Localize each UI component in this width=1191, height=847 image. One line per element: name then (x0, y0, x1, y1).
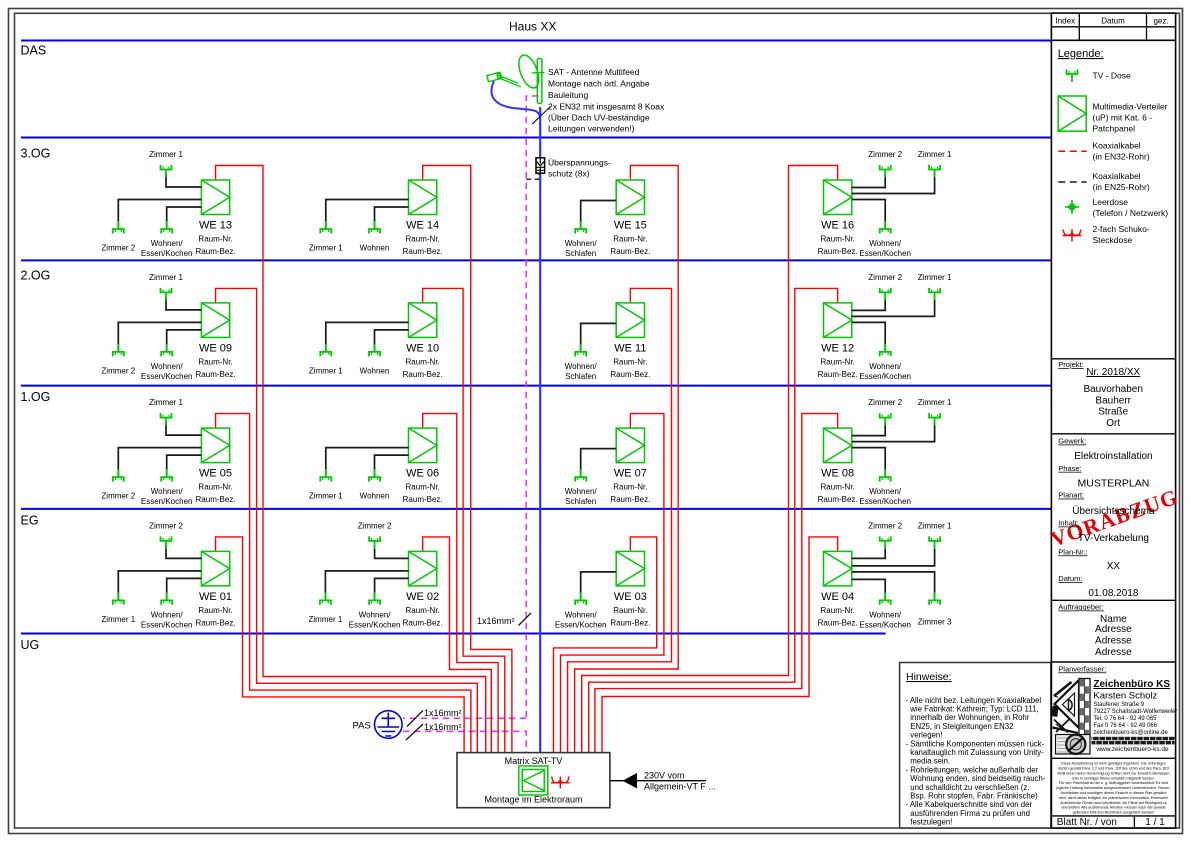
svg-text:Raum-Nr.: Raum-Nr. (198, 606, 232, 615)
multimedia distributor WE 05 (201, 428, 229, 463)
svg-text:(in EN25-Rohr): (in EN25-Rohr) (1093, 182, 1150, 192)
svg-text:Zimmer 1: Zimmer 1 (918, 150, 952, 159)
cable size slash riser (519, 613, 532, 626)
red coax cable WE 04 to Matrix (602, 537, 838, 753)
wire WE 08 outlet Wohnen/Essen/Kochen (852, 448, 885, 478)
svg-text:MUSTERPLAN: MUSTERPLAN (1078, 477, 1150, 489)
svg-text:Essen/Kochen: Essen/Kochen (141, 620, 193, 629)
svg-text:Blatt Nr. / von: Blatt Nr. / von (1057, 817, 1117, 828)
svg-text:- Sämtliche Komponenten müssen: - Sämtliche Komponenten müssen rück- (906, 739, 1045, 748)
TV outlet WE 08 Wohnen/Essen/Kochen (880, 469, 891, 482)
svg-text:Essen/Kochen: Essen/Kochen (141, 372, 193, 381)
svg-text:2-fach Schuko-: 2-fach Schuko- (1093, 224, 1150, 234)
svg-text:Ort: Ort (1106, 418, 1120, 429)
TV outlet WE 14 Wohnen (369, 221, 380, 234)
svg-text:kanaltauglich mit Zulassung vo: kanaltauglich mit Zulassung von Unity- (910, 748, 1044, 757)
svg-text:Wohnen/: Wohnen/ (151, 610, 184, 619)
TV outlet WE 10 Wohnen (369, 344, 380, 357)
multimedia distributor WE 03 (616, 551, 644, 586)
230V supply arrow (610, 780, 706, 782)
svg-text:79227 Schallstadt-Wolfenweiler: 79227 Schallstadt-Wolfenweiler (1093, 709, 1177, 715)
svg-text:WE 11: WE 11 (614, 342, 646, 354)
svg-text:Raum-Bez.: Raum-Bez. (196, 370, 236, 379)
TV outlet WE 01 Wohnen/Essen/Kochen (161, 592, 172, 605)
svg-text:Zimmer 1: Zimmer 1 (101, 615, 135, 624)
legend TV outlet symbol (1067, 70, 1078, 83)
svg-text:(in EN32-Rohr): (in EN32-Rohr) (1093, 152, 1150, 162)
wire WE 13 outlet near (167, 207, 202, 229)
svg-text:Wohnen/: Wohnen/ (565, 362, 598, 371)
svg-text:Wohnen: Wohnen (360, 244, 390, 253)
svg-text:wie Fabrikat: Kathrein; Typ: L: wie Fabrikat: Kathrein; Typ: LCD 111, (909, 705, 1038, 714)
red coax cable WE 02 to Matrix (423, 537, 492, 753)
wire WE 02 outlet Wohnen/Essen/Kochen (375, 578, 409, 600)
TV outlet WE 02 Wohnen/Essen/Kochen (369, 592, 380, 605)
svg-text:Koaxialkabel: Koaxialkabel (1093, 171, 1141, 181)
svg-text:Adresse: Adresse (1095, 636, 1132, 647)
svg-text:Haus XX: Haus XX (509, 20, 556, 34)
svg-text:Raum-Nr.: Raum-Nr. (613, 483, 647, 492)
svg-text:Wohnen/: Wohnen/ (565, 239, 598, 248)
svg-text:und schalldicht zu verschließe: und schalldicht zu verschließen (z. (910, 783, 1029, 792)
Matrix distributor symbol (519, 766, 548, 795)
TV outlet WE 08 Zimmer 2 (880, 413, 891, 426)
TV outlet WE 04 Zimmer 3 (929, 592, 940, 605)
svg-text:Raum-Nr.: Raum-Nr. (821, 606, 855, 615)
red coax cable WE 12 to Matrix (589, 288, 838, 752)
svg-text:Planverfasser:: Planverfasser: (1058, 664, 1106, 673)
TV outlet WE 04 Zimmer 1 (929, 536, 940, 549)
svg-text:Raum-Nr.: Raum-Nr. (613, 357, 647, 366)
svg-text:Zimmer 2: Zimmer 2 (149, 521, 183, 530)
svg-text:UG: UG (21, 638, 40, 652)
cable size slash lower (406, 724, 423, 740)
svg-text:jegliche Haftung meinerseits a: jegliche Haftung meinerseits ausgeschlos… (1056, 786, 1171, 790)
svg-text:1 / 1: 1 / 1 (1145, 817, 1165, 828)
TV outlet WE 02 Zimmer 2 (369, 536, 380, 549)
svg-text:Zimmer 2: Zimmer 2 (101, 492, 135, 501)
svg-text:Tel. 0 76 64 - 92 49 065: Tel. 0 76 64 - 92 49 065 (1093, 716, 1157, 722)
wire WE 13 outlet far (118, 200, 201, 230)
svg-text:Koaxialkabel: Koaxialkabel (1093, 141, 1141, 151)
wire WE 12 outlet Zimmer 2 (852, 297, 885, 311)
svg-text:Raum-Bez.: Raum-Bez. (818, 618, 858, 627)
svg-text:Essen/Kochen: Essen/Kochen (859, 497, 911, 506)
blue coax riser from SAT antenna to Matrix (539, 107, 541, 753)
svg-text:WE 03: WE 03 (614, 591, 647, 603)
TV outlet WE 06 Wohnen (369, 469, 380, 482)
svg-text:- Rohrleitungen, welche außerh: - Rohrleitungen, welche außerhalb der (906, 765, 1039, 774)
TV outlet WE 13 Wohnen/Essen/Kochen (161, 221, 172, 234)
svg-text:WE 04: WE 04 (821, 591, 854, 603)
TV outlet WE 04 Zimmer 2 (880, 536, 891, 549)
svg-text:Raum-Bez.: Raum-Bez. (818, 495, 858, 504)
brick banner (1092, 737, 1175, 745)
svg-text:Raum-Nr.: Raum-Nr. (198, 235, 232, 244)
SAT antenna LNB (487, 72, 502, 82)
svg-text:Phase:: Phase: (1058, 464, 1081, 473)
svg-text:Wohnen/: Wohnen/ (869, 487, 902, 496)
wire WE 05 outlet far (118, 448, 201, 478)
SAT antenna feed arm (498, 73, 538, 87)
svg-text:Raum-Bez.: Raum-Bez. (818, 370, 858, 379)
svg-text:schutz (8x): schutz (8x) (548, 169, 590, 179)
wire WE 08 outlet Zimmer 2 (852, 422, 885, 436)
svg-text:zeichenbuero-ks@online.de: zeichenbuero-ks@online.de (1093, 730, 1168, 736)
svg-text:Zimmer 1: Zimmer 1 (149, 150, 183, 159)
legend multimedia distributor (1058, 96, 1086, 131)
TV outlet WE 14 Zimmer 1 (320, 221, 331, 234)
TV outlet WE 16 Wohnen/Essen/Kochen (880, 221, 891, 234)
svg-text:WE 02: WE 02 (406, 591, 439, 603)
svg-text:Wohnen/: Wohnen/ (565, 487, 598, 496)
red coax cable WE 10 to Matrix (423, 288, 505, 752)
svg-text:1x16mm²: 1x16mm² (424, 708, 462, 718)
floor line 3.OG (21, 137, 1051, 139)
svg-text:Wohnen: Wohnen (360, 492, 390, 501)
floor line 2.OG (21, 259, 1051, 261)
red coax cable WE 09 to Matrix (216, 288, 478, 752)
TV outlet WE 13 Zimmer 1 (161, 165, 172, 178)
multimedia distributor WE 13 (201, 180, 229, 215)
multimedia distributor WE 06 (409, 428, 437, 463)
svg-text:BGB ohne meine Genehmigung Dri: BGB ohne meine Genehmigung Dritten nicht… (1057, 771, 1169, 775)
svg-text:Leerdose: Leerdose (1093, 197, 1129, 207)
svg-text:Raum-Nr.: Raum-Nr. (198, 357, 232, 366)
wire WE 16 outlet Zimmer 2 (852, 174, 885, 188)
wire WE 05 outlet near (167, 455, 202, 477)
svg-text:überprüfen! Alle ausführende A: überprüfen! Alle ausführende Arbeiten mü… (1061, 806, 1165, 810)
legend black coax cable sample (1058, 181, 1086, 183)
svg-text:Elektroinstallation: Elektroinstallation (1074, 451, 1152, 462)
wire WE 16 outlet Zimmer 1 (852, 174, 935, 194)
svg-text:Für den Planinhalt ist der o.: Für den Planinhalt ist der o. g. Auftrag… (1059, 781, 1168, 785)
svg-text:WE 12: WE 12 (821, 342, 854, 354)
svg-text:Essen/Kochen: Essen/Kochen (859, 372, 911, 381)
svg-text:Zimmer 2: Zimmer 2 (101, 244, 135, 253)
svg-text:Wohnen/: Wohnen/ (151, 487, 184, 496)
svg-text:Inhalt:: Inhalt: (1058, 519, 1078, 528)
Hinweise notes box (900, 663, 1051, 829)
svg-text:1.OG: 1.OG (21, 390, 51, 404)
TV outlet WE 07 Wohnen/Schlafen (575, 469, 586, 482)
svg-text:Auftraggeber:: Auftraggeber: (1058, 603, 1103, 612)
legend Schuko socket symbol (1063, 229, 1082, 242)
svg-text:Straße: Straße (1098, 407, 1128, 418)
svg-text:Zimmer 2: Zimmer 2 (868, 273, 902, 282)
svg-text:Montage im Elektroraum: Montage im Elektroraum (484, 795, 582, 805)
svg-text:Raum-Nr.: Raum-Nr. (613, 235, 647, 244)
svg-text:Raum-Nr.: Raum-Nr. (406, 483, 440, 492)
wire WE 16 outlet Wohnen/Essen/Kochen (852, 200, 885, 230)
PAS earth terminal (375, 711, 403, 739)
svg-text:Steckdose: Steckdose (1093, 235, 1133, 245)
svg-text:Bauvorhaben: Bauvorhaben (1083, 384, 1143, 395)
Matrix SAT-TV cabinet (457, 753, 610, 808)
svg-text:Raum-Nr.: Raum-Nr. (821, 357, 855, 366)
wire WE 15 outlet (581, 201, 617, 230)
svg-text:1x16mm²: 1x16mm² (424, 722, 462, 732)
svg-text:Essen/Kochen: Essen/Kochen (859, 620, 911, 629)
multimedia distributor WE 01 (201, 551, 229, 586)
svg-text:Zimmer 1: Zimmer 1 (309, 244, 343, 253)
multimedia distributor WE 11 (616, 303, 644, 338)
svg-text:Zimmer 3: Zimmer 3 (918, 617, 952, 626)
svg-text:Essen/Kochen: Essen/Kochen (349, 620, 401, 629)
svg-text:Diese Ausarbeitung ist mein ge: Diese Ausarbeitung ist mein geistiges Ei… (1061, 762, 1166, 766)
svg-text:230V vom: 230V vom (644, 770, 685, 780)
wire WE 01 outlet near (167, 578, 202, 600)
svg-text:TV-Verkabelung: TV-Verkabelung (1078, 533, 1149, 544)
svg-text:SAT - Antenne Multifeed: SAT - Antenne Multifeed (548, 67, 640, 77)
svg-text:Raum-Nr.: Raum-Nr. (613, 606, 647, 615)
wire WE 06 outlet Wohnen (375, 455, 409, 477)
TV outlet WE 13 Zimmer 2 (113, 221, 124, 234)
multimedia distributor WE 16 (824, 180, 852, 215)
floor line 1.OG (21, 385, 1051, 387)
red coax cable WE 06 to Matrix (423, 414, 498, 753)
svg-text:Montage nach örtl. Angabe: Montage nach örtl. Angabe (548, 79, 650, 89)
wire WE 04 outlet Zimmer 1 (852, 545, 935, 566)
svg-text:1x16mm²: 1x16mm² (477, 616, 515, 626)
svg-text:Raum-Bez.: Raum-Bez. (196, 247, 236, 256)
svg-text:oder in sonstiger Weise inhalt: oder in sonstiger Weise inhaltlich mitge… (1072, 776, 1156, 780)
svg-text:2.OG: 2.OG (21, 269, 51, 283)
svg-text:Raum-Nr.: Raum-Nr. (406, 357, 440, 366)
svg-text:PAS: PAS (353, 721, 371, 732)
svg-text:Zimmer 1: Zimmer 1 (309, 492, 343, 501)
svg-text:Gewerk:: Gewerk: (1058, 437, 1086, 446)
TV outlet WE 16 Zimmer 1 (929, 165, 940, 178)
red coax cable WE 01 to Matrix (216, 537, 465, 753)
svg-text:WE 14: WE 14 (406, 220, 439, 232)
multimedia distributor WE 10 (409, 303, 437, 338)
svg-text:Zimmer 2: Zimmer 2 (358, 521, 392, 530)
TV outlet WE 12 Wohnen/Essen/Kochen (880, 344, 891, 357)
svg-text:Wohnen/: Wohnen/ (869, 362, 902, 371)
wire WE 01 top outlet (166, 545, 201, 558)
wire WE 06 outlet Zimmer 1 (326, 448, 409, 478)
svg-text:Schlafen: Schlafen (565, 372, 596, 381)
revision table (1051, 26, 1175, 28)
svg-text:Wohnen: Wohnen (360, 366, 390, 375)
svg-text:Wohnen/: Wohnen/ (151, 362, 184, 371)
svg-text:WE 07: WE 07 (614, 468, 647, 480)
svg-text:DAS: DAS (21, 44, 47, 58)
svg-text:Raum-Bez.: Raum-Bez. (610, 247, 650, 256)
wire WE 08 outlet Zimmer 1 (852, 422, 935, 442)
svg-text:Raum-Bez.: Raum-Bez. (610, 495, 650, 504)
wire WE 02 outlet Zimmer 1 (325, 571, 408, 601)
TV outlet WE 05 Zimmer 2 (113, 469, 124, 482)
svg-text:WE 06: WE 06 (406, 468, 439, 480)
svg-text:Raum-Bez.: Raum-Bez. (196, 618, 236, 627)
svg-text:Matrix SAT-TV: Matrix SAT-TV (505, 756, 563, 766)
svg-text:innerhalb der Wohnungen, in Ro: innerhalb der Wohnungen, in Rohr (910, 713, 1029, 722)
multimedia distributor WE 02 (409, 551, 437, 586)
wire WE 04 outlet Zimmer 2 (852, 545, 885, 558)
svg-text:gez.: gez. (1153, 16, 1168, 25)
svg-text:Zimmer 2: Zimmer 2 (868, 150, 902, 159)
floor line DAS (21, 40, 1051, 42)
svg-text:festzulegen!: festzulegen! (910, 818, 952, 827)
svg-text:Wohnen/: Wohnen/ (565, 610, 598, 619)
svg-text:Raum-Bez.: Raum-Bez. (403, 495, 443, 504)
TV outlet WE 11 Wohnen/Schlafen (575, 344, 586, 357)
svg-text:WE 08: WE 08 (821, 468, 854, 480)
svg-text:media sein.: media sein. (910, 757, 950, 766)
svg-text:Schlafen: Schlafen (565, 249, 596, 258)
TV outlet WE 08 Zimmer 1 (929, 413, 940, 426)
red coax cable WE 03 to Matrix (554, 537, 657, 753)
wire WE 14 outlet Zimmer 1 (326, 200, 409, 230)
TV outlet WE 10 Zimmer 1 (320, 344, 331, 357)
svg-text:Planart:: Planart: (1058, 491, 1084, 500)
svg-text:Allgemein-VT F ...: Allgemein-VT F ... (644, 782, 716, 792)
svg-text:Datum: Datum (1101, 16, 1125, 25)
svg-text:Raum-Bez.: Raum-Bez. (403, 247, 443, 256)
wire WE 12 outlet Wohnen/Essen/Kochen (852, 322, 885, 352)
red coax cable WE 07 to Matrix (561, 414, 664, 753)
svg-text:Raum-Nr.: Raum-Nr. (406, 606, 440, 615)
svg-text:Patchpanel: Patchpanel (1093, 124, 1136, 134)
svg-text:EG: EG (21, 514, 39, 528)
svg-text:Zeichenbüro KS: Zeichenbüro KS (1093, 679, 1170, 690)
svg-text:(uP) mit Kat. 6 -: (uP) mit Kat. 6 - (1093, 113, 1153, 123)
wire WE 10 outlet Zimmer 1 (326, 322, 409, 352)
svg-text:Zimmer 1: Zimmer 1 (918, 398, 952, 407)
svg-text:Zimmer 1: Zimmer 1 (309, 615, 343, 624)
TV outlet WE 01 Zimmer 2 (161, 536, 172, 549)
svg-text:Raum-Nr.: Raum-Nr. (198, 483, 232, 492)
wire WE 09 outlet near (167, 330, 202, 352)
title block panel (1051, 13, 1175, 828)
svg-text:Leitungen verwenden!): Leitungen verwenden!) (548, 124, 635, 134)
svg-text:Fax 0 76 64 - 92 49 066: Fax 0 76 64 - 92 49 066 (1093, 723, 1157, 729)
svg-text:www.zeichenbuero-ks.de: www.zeichenbuero-ks.de (1095, 746, 1169, 753)
svg-text:Raum-Nr.: Raum-Nr. (406, 235, 440, 244)
svg-text:Essen/Kochen: Essen/Kochen (141, 497, 193, 506)
svg-text:Zimmer 2: Zimmer 2 (868, 398, 902, 407)
svg-text:Index: Index (1056, 16, 1076, 25)
svg-text:Projekt:: Projekt: (1058, 360, 1083, 369)
svg-text:Zimmer 1: Zimmer 1 (149, 273, 183, 282)
wire WE 14 outlet Wohnen (375, 207, 409, 229)
TV outlet WE 04 Wohnen/Essen/Kochen (880, 592, 891, 605)
wire WE 05 top outlet (166, 422, 201, 435)
SAT antenna mast (537, 59, 542, 104)
svg-text:Bsp. Rohr stopfen, Fabr. Fränk: Bsp. Rohr stopfen, Fabr. Fränkische) (910, 792, 1038, 801)
svg-text:Ausführende Firmen sind verpfl: Ausführende Firmen sind verpflichtet: di… (1060, 801, 1167, 805)
svg-text:Hinweise:: Hinweise: (906, 671, 952, 683)
svg-text:01.08.2018: 01.08.2018 (1088, 588, 1138, 599)
svg-text:Raum-Bez.: Raum-Bez. (818, 247, 858, 256)
multimedia distributor WE 07 (616, 428, 644, 463)
svg-text:EN25, in Steigleitungen EN32: EN25, in Steigleitungen EN32 (910, 722, 1013, 731)
svg-text:Zimmer 1: Zimmer 1 (309, 366, 343, 375)
TV outlet WE 01 Zimmer 1 (113, 592, 124, 605)
svg-text:Bauherr: Bauherr (1095, 395, 1131, 406)
svg-text:Wohnen/: Wohnen/ (359, 610, 392, 619)
svg-text:XX: XX (1107, 561, 1121, 572)
svg-text:Essen/Kochen: Essen/Kochen (555, 620, 607, 629)
svg-text:WE 16: WE 16 (821, 220, 854, 232)
TV outlet WE 05 Zimmer 1 (161, 413, 172, 426)
TV outlet WE 15 Wohnen/Schlafen (575, 221, 586, 234)
wire WE 09 top outlet (166, 297, 201, 310)
wire WE 12 outlet Zimmer 1 (852, 297, 935, 317)
svg-text:Zimmer 1: Zimmer 1 (918, 521, 952, 530)
svg-text:(Über Dach UV-beständige: (Über Dach UV-beständige (548, 113, 650, 123)
wire WE 09 outlet far (118, 322, 201, 352)
TV outlet WE 09 Wohnen/Essen/Kochen (161, 344, 172, 357)
svg-text:Raum-Bez.: Raum-Bez. (610, 618, 650, 627)
multimedia distributor WE 09 (201, 303, 229, 338)
svg-text:WE 13: WE 13 (199, 220, 232, 232)
svg-text:Übersichtsschema: Übersichtsschema (1072, 505, 1155, 517)
svg-text:Bauleitung: Bauleitung (548, 90, 588, 100)
TV outlet WE 05 Wohnen/Essen/Kochen (161, 469, 172, 482)
svg-text:Zimmer 1: Zimmer 1 (918, 273, 952, 282)
wire WE 04 outlet Wohnen/Essen/Kochen (852, 579, 885, 600)
red coax cable WE 15 to Matrix (575, 166, 679, 753)
svg-text:verlegen!: verlegen! (910, 731, 942, 740)
svg-text:TV - Dose: TV - Dose (1093, 71, 1132, 81)
magenta equipotential bonding conductor riser (526, 96, 538, 718)
svg-text:WE 15: WE 15 (614, 220, 647, 232)
wire WE 02 top outlet (375, 545, 409, 558)
svg-text:(Telefon / Netzwerk): (Telefon / Netzwerk) (1093, 208, 1169, 218)
svg-text:3.OG: 3.OG (21, 147, 51, 161)
svg-text:WE 05: WE 05 (199, 468, 232, 480)
TV outlet WE 09 Zimmer 2 (113, 344, 124, 357)
svg-text:Datum:: Datum: (1058, 574, 1082, 583)
svg-text:Schlafen: Schlafen (565, 497, 596, 506)
project info block (1051, 358, 1175, 360)
svg-text:Raum-Bez.: Raum-Bez. (403, 618, 443, 627)
svg-text:- Alle Kabelquerschnitte sind: - Alle Kabelquerschnitte sind von der (906, 800, 1033, 809)
wire WE 07 outlet (581, 449, 617, 478)
svg-text:Zimmer 2: Zimmer 2 (101, 366, 135, 375)
svg-text:Multimedia-Verteiler: Multimedia-Verteiler (1093, 102, 1168, 112)
svg-text:Wohnen/: Wohnen/ (869, 610, 902, 619)
red coax cable WE 13 to Matrix (216, 166, 486, 753)
svg-text:Legende:: Legende: (1058, 48, 1104, 60)
svg-text:Wohnung enden, sind beidseitig: Wohnung enden, sind beidseitig rauch- (910, 774, 1045, 783)
legend Leerdose symbol (1065, 200, 1079, 214)
multimedia distributor WE 14 (409, 180, 437, 215)
svg-text:Plan-Nr.:: Plan-Nr.: (1058, 547, 1087, 556)
leader line 2x EN32 (532, 107, 550, 125)
cable size slash upper (407, 711, 423, 727)
multimedia distributor WE 08 (824, 428, 852, 463)
blue cable from LNB to riser (491, 81, 540, 118)
wire WE 03 outlet (581, 572, 617, 601)
TV outlet WE 09 Zimmer 1 (161, 288, 172, 301)
svg-text:Wohnen/: Wohnen/ (151, 239, 184, 248)
svg-text:Staufener Straße 9: Staufener Straße 9 (1093, 702, 1144, 708)
svg-text:- Alle nicht bez. Leitungen Ko: - Alle nicht bez. Leitungen Koaxialkabel (906, 696, 1042, 705)
wire WE 10 outlet Wohnen (375, 330, 409, 352)
svg-text:Adresse: Adresse (1095, 624, 1132, 635)
svg-text:2x EN32 mit insgesamt 8 Koax: 2x EN32 mit insgesamt 8 Koax (548, 102, 665, 112)
svg-text:Karsten Scholz: Karsten Scholz (1093, 690, 1157, 701)
svg-text:Überspannungs-: Überspannungs- (548, 158, 611, 168)
svg-text:Adresse: Adresse (1095, 647, 1132, 658)
svg-text:WE 09: WE 09 (199, 342, 232, 354)
red coax cable WE 05 to Matrix (216, 414, 471, 753)
svg-text:Raum-Nr.: Raum-Nr. (821, 235, 855, 244)
